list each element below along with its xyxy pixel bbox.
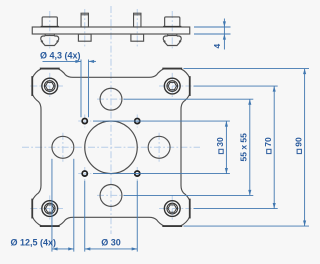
corner screw top-right <box>164 78 180 94</box>
dimension line Ø30 <box>85 248 138 250</box>
dimension line □ 90 (plate envelope) <box>304 69 306 227</box>
svg-text:90: 90 <box>293 137 303 147</box>
label □ 90 (plate envelope) <box>293 137 303 154</box>
dimension line Ø4.3 <box>43 60 82 62</box>
corner screw bottom-right <box>164 201 180 217</box>
hex bolt head left (side view) <box>42 17 57 27</box>
square nut left (side view) <box>78 34 91 41</box>
centerlines of small hole 1 <box>78 120 91 122</box>
centerline of left stud (top view) <box>84 9 86 47</box>
svg-text:55 x 55: 55 x 55 <box>239 133 249 162</box>
dimension line □ 70 (screw spacing) <box>273 86 275 209</box>
label □ 30 (small hole spacing) <box>215 137 225 154</box>
centerlines of top-left screw <box>49 73 51 99</box>
medium hole bottom Ø12.5 <box>100 184 122 206</box>
centerlines of small hole 3 <box>78 173 91 175</box>
extension lines □ 70 (screw spacing) <box>194 85 278 87</box>
dimension line 4 (plate thickness) <box>223 19 225 50</box>
extension lines □ 90 (plate envelope) <box>184 68 310 70</box>
extension lines Ø4.3 <box>80 60 82 118</box>
extension lines □ 30 (small hole spacing) <box>93 120 230 122</box>
dimension line Ø12.5 <box>52 248 74 250</box>
stud right (side view) <box>134 13 141 27</box>
svg-text:Ø 12,5 (4x): Ø 12,5 (4x) <box>11 237 57 247</box>
small hole Ø4.3 #4 <box>135 171 140 176</box>
centerline of right stud (top view) <box>136 9 138 47</box>
centerline of right hex bolt (top view) <box>171 11 173 50</box>
small hole Ø4.3 #3 <box>82 171 87 176</box>
label □ 70 (screw spacing) <box>263 137 273 154</box>
medium hole top Ø12.5 <box>100 88 122 110</box>
plate outline (front view) <box>32 69 190 227</box>
centerlines of bottom-left screw <box>49 195 51 221</box>
centerlines of small hole 2 <box>131 120 144 122</box>
dimension line 55 x 55 (medium hole spacing) <box>249 99 251 195</box>
medium hole left Ø12.5 <box>52 136 74 158</box>
svg-text:70: 70 <box>263 137 273 147</box>
corner screw top-left <box>42 78 58 94</box>
centerline of left hex bolt (top view) <box>49 11 51 50</box>
centerlines of small hole 4 <box>131 173 144 175</box>
small hole Ø4.3 #2 <box>135 119 140 124</box>
wing nut right (side view) <box>167 34 169 36</box>
extension lines 55 x 55 (medium hole spacing) <box>124 98 254 100</box>
svg-text:Ø 30: Ø 30 <box>101 237 121 247</box>
main horizontal centerline (front view) <box>22 146 200 148</box>
centerline of top medium hole <box>97 98 125 100</box>
medium hole right Ø12.5 <box>148 136 170 158</box>
centerline of left medium hole <box>62 133 64 162</box>
extension lines thickness (top view) <box>194 26 231 28</box>
main vertical centerline (both views) <box>110 6 112 234</box>
square nut right (side view) <box>131 34 144 41</box>
svg-text:Ø 4,3 (4x): Ø 4,3 (4x) <box>40 51 81 61</box>
centerlines of top-right screw <box>171 73 173 99</box>
small hole Ø4.3 #1 <box>82 119 87 124</box>
central bore Ø30 <box>85 121 138 174</box>
centerlines of bottom-right screw <box>171 195 173 221</box>
extension lines Ø30 <box>84 181 86 252</box>
wing nut left (side view) <box>44 34 46 36</box>
centerline of right medium hole <box>158 133 160 162</box>
label 55 x 55 (medium hole spacing) <box>239 133 249 162</box>
hex bolt head right (side view) <box>165 17 180 27</box>
corner screw bottom-left <box>42 201 58 217</box>
lobe flats (envelope contact faces) <box>31 76 33 96</box>
extension lines Ø12.5 <box>51 159 53 252</box>
stud left (side view) <box>81 13 88 27</box>
svg-text:4: 4 <box>212 44 222 49</box>
centerline of bottom medium hole <box>97 194 125 196</box>
plate bar (side view) <box>32 27 190 34</box>
dimension line □ 30 (small hole spacing) <box>225 121 227 174</box>
svg-text:30: 30 <box>215 137 225 147</box>
